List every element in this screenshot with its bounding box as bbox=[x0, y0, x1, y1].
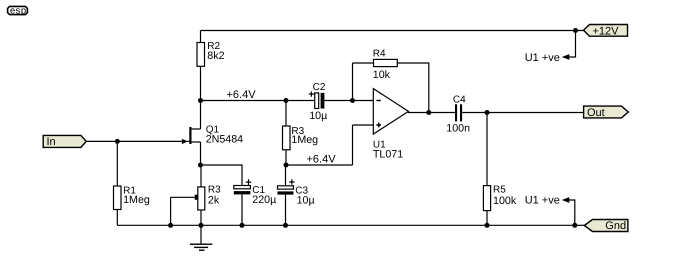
wire feedback to R4 bbox=[353, 62, 374, 64]
resistor R4 bbox=[374, 59, 398, 66]
wire C2 to op-amp inverting input bbox=[324, 100, 373, 102]
svg-text:Gnd: Gnd bbox=[605, 220, 626, 232]
wire R3 trimmer bottom bbox=[200, 210, 202, 225]
label R3 1Meg bbox=[291, 126, 318, 146]
svg-text:+6.4V: +6.4V bbox=[307, 154, 337, 166]
svg-text:+12V: +12V bbox=[593, 26, 620, 38]
wire +6.4V rail bbox=[286, 164, 353, 166]
svg-text:1Meg: 1Meg bbox=[291, 134, 318, 146]
wire R3 1Meg bottom bbox=[285, 150, 287, 165]
label C4 100n bbox=[446, 95, 470, 135]
wire C3 top bbox=[285, 165, 287, 186]
wire C3 bottom bbox=[285, 195, 287, 226]
svg-text:In: In bbox=[47, 136, 56, 148]
label C3 10µ bbox=[295, 185, 314, 206]
capacitor C2 bbox=[309, 91, 325, 108]
junction trimmer wiper ground bbox=[168, 223, 173, 228]
wire node row to C2 bbox=[201, 100, 315, 102]
wire R2 top bbox=[200, 31, 202, 43]
svg-text:8k2: 8k2 bbox=[207, 50, 224, 62]
junction R3 bottom ground bbox=[199, 223, 204, 228]
junction C1 ground bbox=[240, 223, 245, 228]
junction R1 top bbox=[115, 139, 120, 144]
wire Q1 drain up bbox=[200, 101, 202, 130]
svg-text:esp: esp bbox=[10, 5, 27, 16]
wire R5 top bbox=[486, 113, 488, 186]
svg-text:100k: 100k bbox=[493, 195, 517, 207]
wire noninverting input down to +6.4V rail bbox=[352, 125, 354, 165]
resistor R2 bbox=[197, 43, 205, 67]
wire ground symbol stub bbox=[200, 225, 202, 244]
svg-text:220µ: 220µ bbox=[252, 194, 276, 206]
wire R5 bottom bbox=[486, 211, 488, 226]
svg-text:+6.4V: +6.4V bbox=[227, 89, 257, 101]
wire op-amp output bbox=[408, 112, 455, 114]
arrow U1 +ve (bottom) bbox=[562, 197, 570, 203]
ESP logo bbox=[8, 5, 28, 16]
wire U1 +ve supply stub (top) bbox=[569, 31, 576, 58]
junction R3 top bbox=[284, 98, 289, 103]
svg-text:10µ: 10µ bbox=[309, 110, 327, 122]
label R3 2k bbox=[208, 184, 221, 206]
capacitor C3 bbox=[278, 179, 295, 194]
wire Q1 source down bbox=[200, 142, 202, 165]
junction node +6.4V at R2 bbox=[198, 98, 203, 103]
transistor Q1 bbox=[182, 127, 201, 144]
svg-text:100n: 100n bbox=[446, 122, 470, 134]
svg-text:R4: R4 bbox=[373, 49, 386, 60]
label R1 1Meg bbox=[123, 186, 150, 207]
wire In tag to gate bbox=[86, 140, 186, 142]
svg-text:Out: Out bbox=[587, 107, 605, 119]
wire source node row to C1 bbox=[201, 165, 243, 186]
resistor R5 bbox=[483, 186, 490, 211]
op-amp U1 bbox=[373, 89, 408, 135]
svg-text:2k: 2k bbox=[208, 194, 220, 206]
tag In bbox=[43, 135, 86, 148]
junction source node bbox=[198, 163, 203, 168]
label R4 10k bbox=[373, 49, 391, 81]
svg-text:TL071: TL071 bbox=[373, 149, 403, 161]
capacitor C4 bbox=[455, 104, 462, 121]
svg-text:10µ: 10µ bbox=[297, 194, 315, 206]
resistor R3 1Meg bbox=[283, 126, 291, 150]
capacitor C1 bbox=[234, 179, 251, 194]
wire C1 bottom bbox=[241, 194, 243, 225]
resistor R3 trimmer 2k bbox=[171, 187, 205, 225]
wire C4 to Out bbox=[462, 112, 583, 114]
wire R3 trimmer top bbox=[200, 165, 202, 187]
wire op-amp noninverting input bbox=[353, 124, 374, 126]
wire R3 1Meg top bbox=[285, 101, 287, 127]
wire R4 to output node bbox=[397, 63, 429, 113]
svg-text:2N5484: 2N5484 bbox=[206, 133, 243, 145]
wire R1 top bbox=[116, 141, 118, 186]
svg-text:C4: C4 bbox=[453, 95, 466, 106]
svg-text:U1 +ve: U1 +ve bbox=[525, 195, 560, 207]
junction C3 R3 node bbox=[284, 163, 289, 168]
label U1 TL071 bbox=[373, 140, 403, 161]
wire R2 bottom to node bbox=[200, 66, 202, 100]
svg-text:C2: C2 bbox=[313, 82, 326, 93]
junction ground tag node bbox=[572, 223, 577, 228]
label C1 220µ bbox=[252, 185, 276, 206]
junction feedback node bbox=[350, 98, 355, 103]
wire U1 +ve stub (bottom) bbox=[569, 200, 575, 225]
ground bbox=[190, 244, 213, 250]
resistor R1 bbox=[114, 186, 122, 210]
label R5 100k bbox=[493, 185, 517, 207]
tag +12V bbox=[584, 25, 628, 38]
svg-text:1Meg: 1Meg bbox=[123, 194, 150, 206]
wire +12V top rail bbox=[201, 30, 584, 32]
wire feedback up bbox=[352, 63, 354, 101]
svg-text:U1 +ve: U1 +ve bbox=[525, 52, 560, 64]
junction R5 ground bbox=[485, 223, 490, 228]
junction C3 ground bbox=[283, 223, 288, 228]
arrow U1 +ve (top) bbox=[562, 54, 570, 60]
wire R1 bottom bbox=[116, 210, 118, 226]
wire ground row bbox=[117, 224, 575, 226]
label Q1 2N5484 bbox=[206, 125, 243, 146]
junction output feedback bbox=[426, 110, 431, 115]
label R2 8k2 bbox=[207, 41, 224, 62]
wire Gnd tag stub bbox=[575, 224, 585, 226]
junction +12V node bbox=[573, 28, 578, 33]
label C2 10µ bbox=[309, 82, 327, 122]
tag Out bbox=[584, 106, 629, 119]
tag Gnd bbox=[584, 220, 628, 232]
svg-text:10k: 10k bbox=[373, 69, 391, 81]
junction R5 top bbox=[485, 110, 490, 115]
